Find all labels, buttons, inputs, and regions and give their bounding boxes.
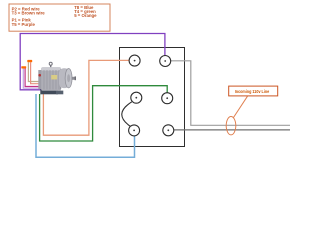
svg-text:T5 = Purple: T5 = Purple — [12, 22, 36, 27]
svg-text:T3 = Brown wire: T3 = Brown wire — [12, 11, 46, 16]
svg-text:Incoming 110v Line: Incoming 110v Line — [235, 89, 270, 94]
svg-text:5 = Orange: 5 = Orange — [74, 13, 97, 18]
